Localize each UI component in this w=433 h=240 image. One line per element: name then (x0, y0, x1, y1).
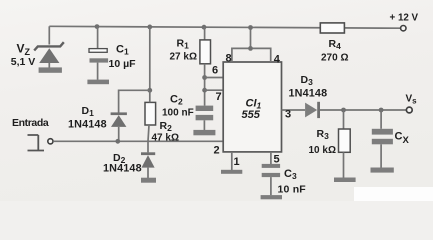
label R2 (160, 120, 173, 133)
ground (C3) (261, 195, 282, 199)
node: pin7 junction (202, 88, 207, 93)
capacitor C1 (electrolytic) (89, 49, 108, 80)
label Entrada (12, 117, 49, 129)
svg-text:100 nF: 100 nF (162, 108, 194, 119)
zener diode VZ (34, 42, 64, 68)
wire: zener drop from rail (48, 26, 50, 44)
svg-text:8: 8 (226, 53, 232, 65)
label 1N4148 (D1) (68, 119, 107, 131)
wire: pin 5 stub (270, 152, 272, 164)
label 1N4148 (D2) (103, 163, 142, 175)
ground (R3) (334, 178, 356, 183)
wire: Entrada to pin 2 (53, 140, 223, 142)
label R4 (329, 38, 342, 51)
svg-text:10 nF: 10 nF (278, 184, 307, 196)
ground (C1) (87, 80, 109, 85)
svg-text:10 µF: 10 µF (109, 58, 137, 70)
wire: rail down to R2 node (149, 27, 151, 90)
label 10 nF (278, 184, 307, 196)
node: D1/R2 junction (147, 88, 152, 93)
pin label 5 (274, 154, 280, 166)
node: R3 junction (341, 108, 346, 113)
svg-text:555: 555 (242, 109, 261, 121)
node: bridge junction (248, 46, 253, 51)
wire: +V top rail (49, 26, 400, 28)
svg-text:1N4148: 1N4148 (289, 88, 328, 100)
pin label 4 (274, 54, 281, 66)
node: rail-C1 junction (95, 24, 100, 29)
label 270 Ohm (321, 53, 348, 64)
wire: pin 7 (205, 89, 224, 91)
svg-text:10 kΩ: 10 kΩ (309, 145, 336, 156)
node: pin6 junction (202, 75, 207, 80)
label R1 (177, 38, 190, 51)
pin label 2 (214, 145, 220, 157)
ground (C2) (193, 130, 215, 135)
svg-text:1N4148: 1N4148 (68, 119, 107, 131)
pin label 6 (212, 65, 218, 77)
diode D1 (111, 112, 127, 141)
svg-text:5,1 V: 5,1 V (11, 56, 36, 68)
pin label 1 (234, 156, 240, 168)
pin label 8 (226, 53, 232, 65)
wire: pin 3 to D3 (282, 109, 306, 111)
ground (pin 1) (221, 170, 242, 174)
resistor R4 (320, 23, 344, 33)
resistor R3 (339, 110, 351, 178)
label D1 (82, 105, 95, 118)
diode D2 (141, 152, 155, 178)
label D2 (113, 152, 126, 165)
label D3 (301, 74, 314, 87)
label Vs (406, 94, 418, 106)
capacitor CX (372, 110, 393, 168)
pin label 3 (285, 108, 291, 120)
svg-text:6: 6 (212, 65, 218, 77)
label 100 nF (162, 108, 194, 119)
wire: rail to C1 (97, 27, 99, 49)
wire: pin 6 (205, 77, 224, 79)
resistor R1 (200, 27, 211, 105)
wire: D3 to Vs (320, 109, 407, 111)
pin label 7 (216, 91, 222, 103)
svg-text:270 Ω: 270 Ω (321, 53, 348, 64)
label C2 (170, 94, 183, 107)
resistor R2 (145, 90, 156, 152)
svg-text:4: 4 (274, 54, 281, 66)
wire: pin 1 to ground (231, 152, 233, 170)
label 47 kOhm (152, 133, 179, 144)
node: rail junction x150 (147, 25, 152, 30)
ground (CX) (371, 168, 394, 173)
svg-text:3: 3 (285, 108, 291, 120)
label +12V (390, 13, 419, 24)
label C1 (116, 44, 129, 57)
label 10 uF (109, 58, 137, 70)
node: input/D1 junction (115, 139, 120, 144)
label 5,1 V (11, 56, 36, 68)
label R3 (317, 128, 330, 141)
input terminal circle (48, 139, 53, 144)
svg-text:27 kΩ: 27 kΩ (170, 52, 197, 63)
ground (D2) (141, 178, 156, 183)
wire: D1 cathode link (119, 90, 150, 112)
svg-text:1: 1 (234, 156, 240, 168)
label 1N4148 (D3) (289, 88, 328, 100)
node: rail feed (248, 25, 253, 30)
svg-text:7: 7 (216, 91, 222, 103)
node: rail-R1 junction (202, 25, 207, 30)
input connector (28, 135, 45, 151)
svg-text:Entrada: Entrada (12, 117, 49, 129)
label VZ (17, 42, 31, 58)
svg-text:+ 12 V: + 12 V (390, 13, 419, 24)
IC CI1 555 (223, 62, 281, 152)
capacitor C2 (196, 106, 214, 130)
label C3 (284, 168, 297, 181)
node: CX junction (379, 108, 384, 113)
wire: pins 8-4 bridge (232, 28, 271, 63)
ground (zener) (39, 67, 62, 72)
svg-text:1N4148: 1N4148 (103, 163, 142, 175)
label 27 kOhm (170, 52, 197, 63)
diode D3 (305, 102, 320, 118)
svg-text:2: 2 (214, 145, 220, 157)
label 10 kOhm (309, 145, 336, 156)
capacitor C3 (262, 164, 280, 195)
label CX (395, 131, 410, 147)
Vs terminal (406, 107, 412, 113)
svg-text:5: 5 (274, 154, 280, 166)
+12V terminal (401, 26, 406, 31)
